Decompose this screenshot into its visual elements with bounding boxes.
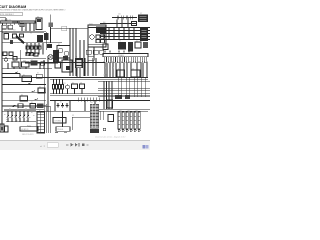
vertical wires from TB2: [105, 63, 147, 78]
note box: [0, 12, 22, 16]
svg-text:L1: L1: [104, 42, 106, 44]
svg-text:LEGEND: LEGEND: [55, 121, 63, 123]
tiny wire label marks: [4, 114, 6, 117]
small marks: [36, 74, 42, 78]
svg-text:S8: S8: [25, 109, 27, 111]
vertical wires mid: [79, 40, 81, 76]
buzzer BZ1: [4, 58, 7, 61]
wires below U9: [77, 68, 80, 77]
lamp pair wires: [118, 77, 145, 97]
svg-text:W1: W1: [72, 115, 74, 117]
svg-text:IC7: IC7: [140, 13, 142, 15]
switch bank bus bottom: [6, 121, 36, 123]
svg-text:RY2: RY2: [31, 44, 34, 46]
bus B6 second: [98, 108, 150, 110]
vertical x20 upper: [19, 50, 21, 69]
TB2 terminal circles: [104, 62, 105, 63]
svg-text:S5: S5: [31, 102, 33, 104]
svg-text:Q9: Q9: [108, 98, 110, 100]
relay bank wires: [27, 43, 43, 55]
component row y42-52 box a: [103, 44, 108, 50]
component on wire: [132, 22, 137, 26]
small marks upper right of row1: [41, 62, 45, 66]
svg-text:T1: T1: [30, 33, 32, 35]
switch bank circles: [7, 115, 8, 116]
label box U10: [56, 127, 70, 132]
verticals upper-left mid: [8, 56, 48, 112]
svg-text:IC201: IC201: [89, 23, 93, 25]
svg-text:C7: C7: [10, 38, 12, 40]
svg-text:S1: S1: [23, 74, 25, 76]
svg-text:J1: J1: [48, 42, 50, 44]
right vertical drops lower: [104, 81, 112, 109]
main bus B3: [2, 77, 148, 79]
capacitor C1: [10, 40, 13, 44]
legend box: [53, 118, 66, 124]
dark blocks row1: [31, 61, 38, 66]
pin ticks row y99: [78, 98, 99, 102]
svg-text:K3: K3: [5, 32, 7, 34]
svg-text:CN3: CN3: [127, 110, 130, 112]
module U5 dark core: [96, 27, 106, 34]
wire bundle top tie: [51, 27, 89, 29]
svg-text:P4: P4: [112, 68, 114, 70]
svg-text:Q5: Q5: [63, 58, 65, 60]
svg-text:K2: K2: [10, 24, 12, 26]
toolbar dash: [66, 144, 68, 147]
relay K3: [4, 34, 9, 40]
switch bank bus top: [4, 109, 36, 111]
vertical drops right top: [117, 18, 128, 28]
wire above mid block: [50, 15, 52, 23]
svg-text:C31: C31: [118, 14, 121, 16]
svg-text:RY1: RY1: [27, 44, 30, 46]
box at S4: [20, 96, 28, 101]
mid vertical drops: [55, 101, 95, 112]
component cluster boxes: [13, 34, 17, 38]
svg-text:1 2 3: 1 2 3: [103, 75, 107, 77]
svg-text:R40: R40: [103, 22, 106, 24]
terminal strip TB2: [103, 54, 148, 57]
svg-text:PU-101: PU-101: [58, 129, 64, 131]
lamp DS1: [66, 85, 70, 89]
left cluster dark mark: [1, 127, 3, 130]
box right mid: [108, 115, 114, 122]
svg-text:T2: T2: [119, 40, 121, 42]
faint box mid: [62, 26, 67, 31]
main bus B3 second line: [50, 78, 148, 80]
bundle tie wires: [104, 28, 134, 40]
narrow boxes right: [107, 100, 113, 108]
svg-text:R23: R23: [63, 83, 66, 85]
motor M1: [48, 55, 53, 60]
vertical bus bundle: [70, 28, 76, 76]
diode bridge box: [72, 84, 78, 89]
wire legend down: [62, 111, 64, 127]
left cluster boxes y52: [3, 52, 7, 56]
switch bank contacts: [7, 115, 29, 118]
bus B1 horizontal: [0, 30, 46, 32]
svg-text:Q1: Q1: [14, 32, 16, 34]
push switch bank S6-S11: [8, 112, 28, 122]
box U8: [62, 60, 72, 72]
svg-text:IRCUIT DIAGRAM: IRCUIT DIAGRAM: [0, 5, 26, 9]
svg-text:CN301: CN301: [118, 55, 124, 57]
wire drops from TB1: [22, 23, 34, 31]
box at S5 b dark: [37, 104, 44, 109]
svg-text:P201: P201: [27, 125, 31, 127]
toolbar background: [0, 141, 150, 150]
wire row y105: [2, 104, 46, 106]
component row e: [143, 42, 148, 48]
switch S3 wire: [2, 91, 46, 93]
wires lower left cluster: [25, 62, 60, 64]
switch S5 wire: [2, 106, 50, 108]
terminal strip TB1 pins: [3, 23, 34, 25]
svg-text:E1: E1: [60, 101, 62, 103]
switch S2 wire: [2, 84, 46, 86]
svg-text:CN2: CN2: [119, 110, 122, 112]
module U11 dark top-right: [138, 15, 148, 23]
vertical wire x46: [46, 32, 48, 50]
wire from TB1 left: [0, 17, 6, 19]
svg-text:C4: C4: [24, 30, 26, 32]
svg-text:D1: D1: [21, 22, 23, 24]
right bus bundle: [88, 27, 150, 29]
box at S3: [38, 88, 45, 93]
resistor R3: [59, 85, 61, 90]
svg-text:◄: ◄: [40, 145, 42, 148]
left edge block cluster: [0, 124, 4, 132]
module U2 dark: [37, 35, 43, 42]
wire from U5 down: [87, 47, 89, 58]
toolbar divider: [0, 139, 150, 141]
vertical wires right of U9: [85, 58, 96, 76]
wire row y109: [4, 108, 44, 110]
svg-text:Z1: Z1: [136, 40, 138, 42]
dark blocks on right bus: [115, 95, 122, 99]
long bottom bus B6: [2, 110, 148, 112]
box row1 b: [22, 62, 30, 67]
wire cap row: [112, 17, 137, 19]
svg-text:IC6: IC6: [132, 68, 134, 70]
wire row y58: [2, 58, 46, 60]
motor M4: [64, 51, 68, 55]
svg-text:P1: P1: [39, 110, 41, 112]
capacitor C2 box: [80, 84, 85, 89]
right bus y81: [98, 80, 150, 82]
svg-text:R22: R22: [58, 83, 61, 85]
svg-text:www.manuals.service - diagram: www.manuals.service - diagram 1 of 2: [95, 137, 125, 139]
box U7: [55, 62, 61, 68]
U5 inner wire: [88, 43, 106, 45]
svg-text:P3: P3: [104, 68, 106, 70]
relay K2: [8, 25, 13, 29]
svg-text:C9: C9: [80, 82, 82, 84]
module U4 dark: [53, 50, 59, 62]
svg-text:M1: M1: [58, 44, 60, 46]
component row dark c: [128, 42, 133, 52]
terminal dots above TB2: [104, 51, 105, 52]
wire row y23: [100, 23, 137, 25]
svg-text:CN4: CN4: [135, 110, 138, 112]
box around motors: [57, 46, 70, 59]
mid horizontals: [52, 62, 105, 64]
connector J2 grid: [37, 112, 45, 133]
connector columns CN2-CN7: [118, 112, 120, 129]
component small mid: [49, 23, 54, 28]
box row1 a: [12, 62, 19, 67]
resistor R2: [56, 85, 58, 90]
ground symbols row: [57, 103, 69, 107]
TB2 pins with terminals: [104, 57, 147, 62]
svg-text:RY4: RY4: [39, 44, 42, 46]
toolbar faint mark: [87, 144, 89, 146]
module U9 tall dark: [75, 58, 83, 68]
toolbar nav icons: [71, 143, 80, 147]
fan motor M2: [90, 35, 95, 40]
svg-text:R21: R21: [53, 83, 56, 85]
boxes below U5: [86, 50, 91, 54]
wire L-shape bottom middle: [72, 117, 92, 130]
wire bundle diagonal dark: [16, 36, 24, 43]
box at S5 a: [30, 104, 36, 109]
component row d: [135, 42, 141, 48]
right bus y89 double: [98, 88, 150, 90]
module U14: [131, 70, 140, 77]
terminal circle bottom right: [103, 128, 105, 130]
left border wire: [1, 28, 3, 131]
relay bank row 1: [26, 46, 29, 49]
component row dark b: [118, 42, 126, 50]
label box bottom-left: [20, 127, 38, 131]
svg-text:SW1: SW1: [13, 60, 16, 62]
left wire row 1: [2, 68, 52, 70]
svg-text:IC3: IC3: [75, 56, 77, 58]
toolbar dot icon: [82, 143, 85, 146]
terminal strip TB1: [0, 21, 35, 23]
motor M3: [58, 48, 62, 52]
box left y56: [13, 57, 17, 61]
right bus y97: [98, 96, 150, 98]
svg-text:S4: S4: [21, 94, 23, 96]
diode D1: [20, 24, 24, 27]
svg-text:S2: S2: [37, 72, 39, 74]
svg-text:K1: K1: [4, 24, 6, 26]
module U13: [117, 70, 125, 77]
vertical wire x44: [43, 60, 45, 111]
switch box SW-A: [22, 76, 32, 82]
resistor R4: [62, 85, 64, 90]
relay bank row 2: [26, 53, 29, 56]
U5 inner cells: [96, 35, 100, 38]
wire from mid block down: [50, 27, 52, 43]
svg-text:RY3: RY3: [35, 44, 38, 46]
resistor R1: [53, 85, 55, 90]
toolbar icon blue: [143, 145, 146, 149]
module U12 tall dark right edge: [140, 28, 148, 41]
switch S4 wire: [2, 99, 46, 101]
capacitor C3 symbol: [117, 16, 132, 20]
resistor row wires: [54, 79, 63, 84]
svg-text:X1: X1: [55, 60, 57, 62]
svg-text:IC5: IC5: [118, 68, 120, 70]
bus B5: [50, 100, 150, 102]
connector J1 dark: [47, 44, 52, 48]
svg-text:F1: F1: [31, 59, 33, 61]
connector J6 striped: [90, 104, 99, 128]
box row y104 a: [18, 104, 23, 108]
bus B4 double: [50, 93, 150, 95]
module U3 dark: [44, 33, 49, 40]
connector J6 base box: [90, 129, 99, 134]
row drops to bus B4: [54, 89, 83, 94]
svg-text:S6: S6: [9, 109, 11, 111]
svg-text:IC1: IC1: [37, 16, 39, 18]
wire drops bottom right: [100, 111, 103, 120]
svg-text:SW2: SW2: [23, 60, 26, 62]
svg-text:S3: S3: [39, 86, 41, 88]
toolbar page input box: [47, 143, 58, 147]
vertical wires right of J2: [46, 104, 50, 133]
relay K1: [2, 25, 6, 29]
bus B2 horizontal: [2, 42, 62, 44]
TB1 hatch ticks: [13, 21, 20, 23]
module U1: [36, 18, 42, 30]
svg-text:R12: R12: [13, 30, 16, 32]
svg-text:P2: P2: [46, 110, 48, 112]
switch S1 wire: [2, 73, 20, 75]
tiny marks under PU box: [55, 131, 58, 134]
svg-text:CN5: CN5: [90, 102, 93, 104]
module box U5 large: [88, 25, 106, 47]
svg-text:S7: S7: [17, 109, 19, 111]
module U6 cells dark: [63, 56, 68, 61]
svg-text:D5: D5: [72, 82, 74, 84]
